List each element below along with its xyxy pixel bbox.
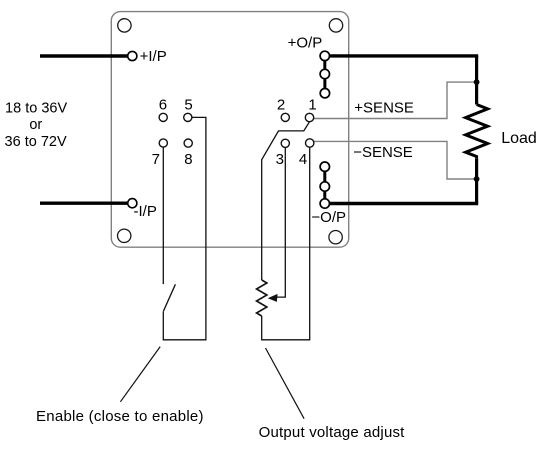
mounting hole top-right [329,19,342,32]
wire +SENSE (pin 1 to load top junction) [314,82,476,118]
pin 1 [305,113,313,121]
wire pin3 to wiper [277,147,286,297]
svg-text:6: 6 [159,96,167,113]
wire -input feed [40,201,128,204]
wire pin5 jog [163,117,206,339]
link pin a [320,69,329,78]
pin -I/P [128,199,137,208]
svg-text:2: 2 [277,96,285,113]
svg-text:+SENSE: +SENSE [354,100,414,117]
wire pot bottom to pin4 [262,147,310,340]
svg-text:Enable (close to enable): Enable (close to enable) [36,408,204,425]
svg-text:7: 7 [152,151,160,168]
wire +O/P to load (top) [329,54,478,57]
leader enable label [120,347,160,402]
svg-text:5: 5 [184,96,192,113]
pin 5 [184,113,192,121]
potentiometer RV1 element [257,280,267,316]
wiper arrowhead [269,294,278,301]
wire +input feed [40,54,128,57]
wire -O/P to load (bottom) [329,202,478,205]
link pin c [320,162,329,171]
svg-text:Output voltage adjust: Output voltage adjust [259,424,406,441]
mounting hole bottom-right [329,231,342,244]
resistor Load [466,105,488,159]
mounting hole bottom-left [118,229,131,242]
svg-text:−O/P: −O/P [311,209,346,226]
svg-text:8: 8 [184,151,192,168]
link pin b [320,89,329,98]
pin 7 [159,139,167,147]
wire pin7 down [162,147,164,284]
svg-text:−SENSE: −SENSE [353,144,413,161]
wire -SENSE (pin 4 to load bottom junction) [314,141,476,179]
svg-text:-I/P: -I/P [134,203,157,220]
wire load vertical lower [475,159,478,204]
svg-text:+O/P: +O/P [288,35,323,52]
pin +I/P [128,51,137,60]
svg-text:18 to 36V: 18 to 36V [5,100,67,116]
mounting hole top-left [118,19,131,32]
svg-text:4: 4 [299,151,307,168]
pin -O/P [320,199,329,208]
converter module outline U1 [111,12,348,248]
svg-text:36 to 72V: 36 to 72V [5,134,67,150]
svg-text:3: 3 [276,151,284,168]
pin 4 [306,139,314,147]
svg-text:+I/P: +I/P [140,48,167,65]
pin 6 [159,113,167,121]
link +O/P vertical [323,56,326,93]
switch S1 blade (enable) [163,284,175,311]
link -O/P vertical [323,167,326,204]
junction +sense/load [474,79,480,85]
junction -sense/load [474,176,480,182]
svg-text:1: 1 [308,96,316,113]
svg-text:or: or [29,117,42,133]
wire load vertical upper [475,56,478,105]
pin 3 [281,139,289,147]
pin 2 [281,113,289,121]
pin +O/P [320,51,329,60]
leader output adjust label [266,348,305,419]
link pin d [320,182,329,191]
wire pin1 to pot top [262,122,310,280]
svg-text:Load: Load [501,130,537,147]
pin 8 [184,139,192,147]
